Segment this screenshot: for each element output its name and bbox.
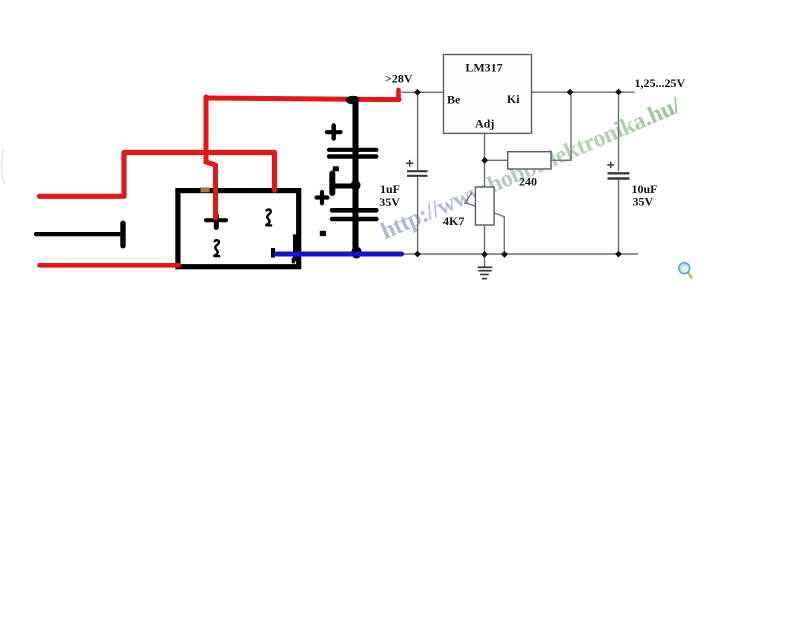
svg-text:>28V: >28V [385, 71, 413, 85]
svg-text:35V: 35V [379, 195, 400, 209]
svg-text:LM317: LM317 [465, 61, 502, 75]
svg-text:Be: Be [447, 92, 461, 106]
svg-text:1,25...25V: 1,25...25V [635, 76, 686, 90]
svg-text:1uF: 1uF [380, 182, 400, 196]
svg-text:Adj: Adj [475, 116, 494, 130]
svg-text:4K7: 4K7 [443, 214, 464, 228]
svg-text:240: 240 [519, 175, 537, 189]
svg-text:35V: 35V [633, 195, 654, 209]
svg-text:Ki: Ki [507, 92, 520, 106]
